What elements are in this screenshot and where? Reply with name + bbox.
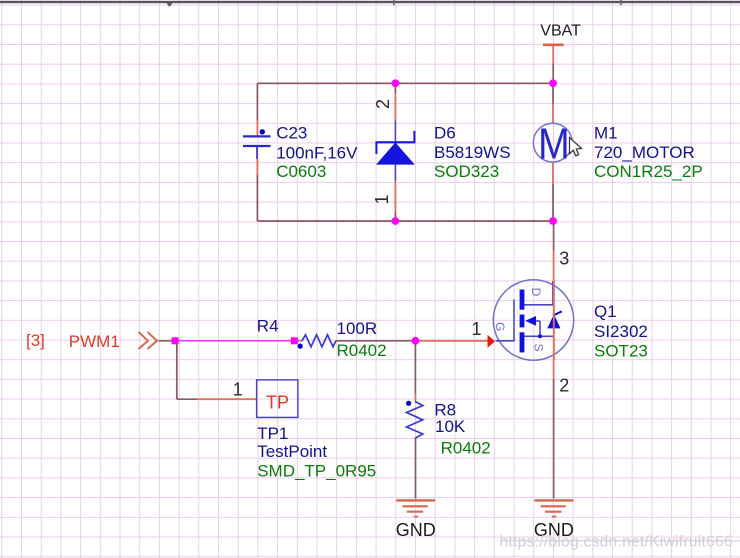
- svg-text:1: 1: [372, 194, 392, 204]
- svg-text:Q1: Q1: [594, 302, 617, 321]
- svg-text:720_MOTOR: 720_MOTOR: [594, 143, 695, 162]
- svg-text:R0402: R0402: [441, 439, 491, 458]
- svg-text:1: 1: [233, 380, 243, 400]
- svg-text:https://blog.csdn.net/Kiwifrui: https://blog.csdn.net/Kiwifruit666: [500, 534, 733, 551]
- svg-text:M1: M1: [594, 123, 618, 142]
- svg-text:TP: TP: [266, 392, 289, 412]
- svg-text:1: 1: [472, 319, 482, 339]
- svg-text:SI2302: SI2302: [594, 322, 648, 341]
- svg-text:SOD323: SOD323: [434, 162, 499, 181]
- svg-text:SOT23: SOT23: [594, 341, 648, 360]
- svg-text:TP1: TP1: [257, 424, 288, 443]
- svg-text:100nF,16V: 100nF,16V: [276, 144, 358, 163]
- svg-text:G: G: [493, 322, 507, 331]
- svg-text:TestPoint: TestPoint: [257, 442, 327, 461]
- svg-text:10K: 10K: [435, 417, 466, 436]
- svg-text:C23: C23: [276, 123, 307, 142]
- svg-text:B5819WS: B5819WS: [434, 143, 511, 162]
- svg-text:S: S: [531, 343, 545, 351]
- svg-text:CON1R25_2P: CON1R25_2P: [594, 162, 703, 181]
- svg-text:GND: GND: [396, 520, 436, 540]
- svg-text:[3]: [3]: [26, 331, 45, 350]
- svg-text:C0603: C0603: [276, 162, 326, 181]
- svg-text:SMD_TP_0R95: SMD_TP_0R95: [257, 461, 376, 480]
- svg-text:M: M: [538, 119, 570, 168]
- svg-text:2: 2: [559, 375, 569, 395]
- svg-text:D: D: [529, 288, 543, 297]
- svg-text:3: 3: [559, 248, 569, 268]
- svg-text:D6: D6: [434, 123, 456, 142]
- svg-text:PWM1: PWM1: [69, 332, 120, 351]
- svg-text:2: 2: [373, 99, 393, 109]
- svg-text:100R: 100R: [337, 319, 378, 338]
- svg-text:R4: R4: [257, 316, 279, 335]
- svg-text:VBAT: VBAT: [540, 23, 581, 40]
- svg-text:R0402: R0402: [337, 341, 387, 360]
